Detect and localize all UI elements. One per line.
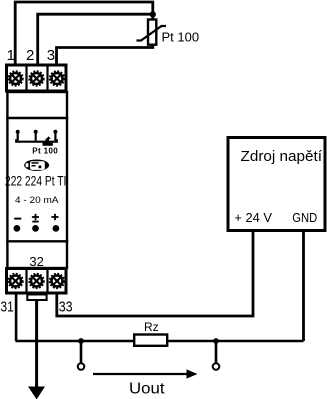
screw terminal 32 (29, 274, 44, 289)
terminal dot 2 (32, 225, 39, 232)
svg-text:31: 31 (1, 298, 14, 315)
wire from terminal 33 right and up to +24V (57, 232, 253, 316)
svg-text:Pt 100: Pt 100 (162, 29, 200, 44)
module body divider lower (6, 240, 68, 242)
junction dot at Pt100 top node (150, 11, 156, 17)
bottom block divider 1 (25, 267, 27, 295)
module body outline (7, 92, 67, 268)
screw terminal 31 (8, 274, 23, 289)
screw terminal 2 (29, 71, 44, 86)
bottom block divider 2 (46, 267, 48, 295)
terminal dot 1 (14, 225, 21, 232)
svg-text:Zdroj napětí: Zdroj napětí (241, 148, 323, 165)
terminal dot 3 (53, 225, 60, 232)
svg-text:3: 3 (47, 47, 55, 64)
voltage source box Zdroj napeti (228, 138, 325, 231)
top block divider 1 (25, 64, 27, 93)
module face Pt100 3-wire icon (16, 130, 58, 146)
open terminal circle right (213, 363, 220, 370)
svg-text:222 224 Pt TI: 222 224 Pt TI (5, 173, 66, 189)
svg-text:Pt 100: Pt 100 (32, 146, 58, 155)
open terminal circle left (78, 363, 85, 370)
wire from terminal 1 up and right to Pt100 top (15, 2, 153, 65)
resistor Pt100 body (148, 20, 156, 45)
module body divider upper (6, 117, 68, 119)
svg-text:2: 2 (26, 47, 34, 64)
middle terminal mounting tab (27, 295, 46, 301)
ground symbol (28, 387, 45, 399)
svg-text:+ 24 V: + 24 V (234, 210, 272, 225)
screw terminal 3 (50, 71, 65, 86)
stub to right test point (215, 341, 218, 363)
top terminal block (7, 65, 67, 91)
svg-text:Uout: Uout (129, 381, 165, 398)
wire from terminal 3 right to Pt100 bottom (57, 45, 153, 65)
svg-text:4 - 20 mA: 4 - 20 mA (15, 195, 59, 206)
Pt100 thermistor diagonal stroke (137, 26, 167, 41)
manufacturer logo (24, 160, 49, 171)
bottom terminal block (7, 269, 67, 294)
wire from terminal 2 up and right to Pt100 top junction (38, 14, 153, 65)
svg-text:1: 1 (7, 47, 15, 64)
screw terminal 1 (8, 71, 23, 86)
wire from terminal 31 down to output bus (15, 294, 18, 341)
svg-text:GND: GND (292, 210, 317, 225)
polarity plus mark (51, 214, 58, 220)
polarity minus mark (14, 218, 21, 220)
wire from terminal 32 down to ground (35, 300, 38, 388)
Uout arrow (93, 369, 198, 378)
stub to left test point (80, 341, 83, 363)
svg-text:33: 33 (59, 298, 73, 315)
polarity minus-plus mark (32, 214, 39, 222)
junction dot right test point (213, 338, 219, 344)
screw terminal 33 (50, 274, 65, 289)
junction dot left test point (78, 338, 84, 344)
top block divider 2 (46, 64, 48, 93)
output bus wire (16, 340, 304, 342)
wire GND from supply down to bus (302, 232, 305, 341)
svg-text:Rz: Rz (144, 320, 159, 334)
resistor Rz body (134, 335, 167, 346)
svg-text:32: 32 (29, 254, 43, 269)
